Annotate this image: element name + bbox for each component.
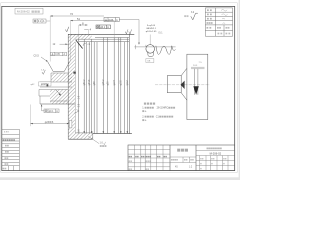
hub hatch lower [50, 90, 68, 105]
roughness flag near chamfer [83, 43, 86, 46]
svg-text:28-32HRC: 28-32HRC [157, 107, 169, 110]
dim line L3 (8) [79, 21, 88, 39]
flange notch groove [69, 120, 72, 128]
hub hatch upper [40, 73, 72, 87]
svg-text:1.: 1. [142, 107, 144, 110]
groove detail: groove under ring [148, 51, 153, 56]
svg-text:GB3452.1: GB3452.1 [146, 28, 157, 30]
right view: depth dim lines [193, 69, 195, 95]
svg-text:72: 72 [70, 12, 73, 16]
right view: dark tip arrow [181, 81, 185, 89]
right view: dark arrowhead down [193, 86, 198, 95]
left margin table [2, 129, 20, 170]
title block right: company [207, 148, 209, 150]
title block left labels row [129, 156, 167, 170]
title block middle: part name [177, 149, 180, 152]
GDT frame F2 [41, 104, 59, 113]
svg-text:C0.5: C0.5 [34, 54, 40, 57]
svg-text:0.05: 0.05 [55, 54, 60, 56]
page edge shading right [239, 0, 240, 180]
right view: centerline [155, 84, 210, 86]
main view: dim arrowheads on bottom edge [83, 131, 128, 133]
svg-text:φ84.5: φ84.5 [89, 79, 91, 86]
main view: bottom edge [93, 133, 132, 135]
groove detail: small text below [146, 59, 154, 63]
svg-text:2.: 2. [142, 116, 144, 119]
flange diameter dim bottom [30, 105, 69, 127]
svg-text:φ95.2: φ95.2 [103, 79, 105, 86]
hub bottom edge [40, 103, 75, 105]
main view: interior bore verticals [78, 38, 127, 134]
main view: flange hatch band [68, 34, 75, 139]
small width dim at band [53, 43, 68, 46]
main view: bottom foot hatch [68, 133, 93, 139]
title block right: drawing number [196, 151, 235, 156]
page edge shading bottom [0, 177, 240, 180]
cone recess left face [48, 62, 70, 72]
svg-text:φ103×2.65: φ103×2.65 [146, 30, 157, 33]
groove detail: wave profile [156, 46, 176, 55]
drawing frame [2, 6, 235, 170]
GDT frame F3 top-left [33, 19, 50, 23]
left margin table texts [3, 132, 15, 170]
svg-text:φ230h6: φ230h6 [45, 121, 54, 124]
GDT frame F1 [51, 52, 67, 56]
title block middle grid [170, 157, 196, 163]
GDT frame F4 [104, 18, 119, 22]
C2 chamfer label [34, 54, 48, 62]
title block right grid [196, 156, 235, 171]
revision table texts [207, 9, 231, 34]
hub leader arrow [56, 90, 61, 96]
roughness checks on top edge [125, 29, 128, 34]
main view: vertical diameter dim texts [84, 79, 129, 86]
svg-text:M-206-02: M-206-02 [17, 10, 30, 14]
revision table signatures [221, 10, 228, 24]
F4 leader to groove [119, 20, 139, 45]
svg-text:φ80.2: φ80.2 [84, 79, 86, 86]
small check in bore gap [74, 110, 79, 114]
bottom leader + roughness note [88, 136, 106, 147]
main view: top outline [68, 33, 134, 35]
svg-text:M-206-02: M-206-02 [210, 152, 222, 156]
page background [0, 0, 240, 180]
datum tick on band edge [73, 72, 75, 74]
roughness check left mid [41, 70, 45, 75]
right view: web flares [181, 68, 187, 75]
main view: top wall hatch [75, 34, 129, 39]
dim line L4 (4) [84, 27, 91, 36]
roughness check above wall [65, 27, 69, 32]
svg-text:φ104: φ104 [114, 79, 116, 85]
rotated roughness marks in bore gap [79, 95, 81, 132]
revision table top-right [205, 8, 232, 36]
technical requirements block [142, 103, 175, 122]
groove detail: stacked dim texts [146, 24, 157, 33]
svg-text:3×φ2.65: 3×φ2.65 [147, 24, 156, 27]
GDT frame F5 (dark) [96, 25, 111, 29]
right view: rim rect [187, 54, 208, 119]
right view: hub square [167, 76, 181, 93]
sheet edge line [1, 3, 238, 173]
svg-text:φ0.1: φ0.1 [100, 27, 105, 29]
groove detail: left dim ticks [135, 45, 146, 49]
svg-text:I 5:1: I 5:1 [158, 33, 163, 35]
top-right roughness symbol [184, 12, 198, 20]
bore dim box left [31, 82, 52, 86]
svg-text:φ109: φ109 [121, 79, 123, 85]
dim line L2 [70, 17, 114, 62]
svg-text:φ112: φ112 [127, 80, 129, 86]
main view: right edge [128, 34, 130, 133]
groove detail: base line [134, 46, 175, 48]
groove detail: O-ring circle [146, 45, 155, 54]
title block outer [128, 145, 235, 171]
hub step outline [39, 90, 68, 105]
right view: top ticks + text [191, 67, 205, 69]
main view: interior horizontals [79, 38, 129, 42]
corner drawing-number box [15, 8, 43, 14]
title block left grid [128, 145, 170, 171]
groove detail: centerline [149, 35, 151, 46]
svg-text:φ0.1: φ0.1 [49, 111, 54, 113]
chamfer diagonal leader [76, 40, 83, 49]
top dim line L1 (72) [50, 12, 104, 61]
